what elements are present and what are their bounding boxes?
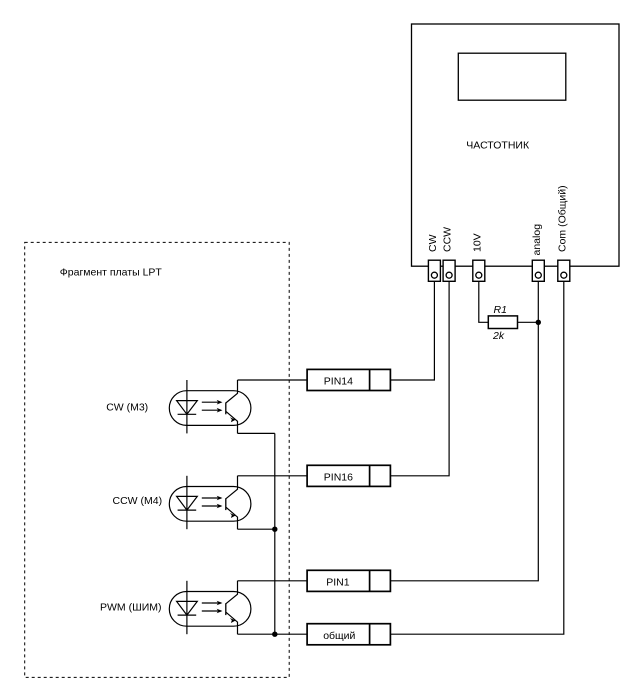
optocoupler PWM (ШИМ) <box>169 581 251 634</box>
terminal label CW <box>427 234 439 252</box>
svg-text:Com (Общий): Com (Общий) <box>556 185 568 252</box>
svg-text:PIN16: PIN16 <box>324 471 353 483</box>
svg-text:PIN14: PIN14 <box>324 376 353 388</box>
label 2k <box>492 330 505 342</box>
connector box PIN14 <box>307 369 390 390</box>
wire PWM emitter to common box <box>238 633 308 635</box>
svg-text:общий: общий <box>323 630 355 642</box>
terminal CCW <box>443 260 455 281</box>
connector box PIN16 <box>307 465 390 486</box>
label Фрагмент платы LPT <box>60 267 163 279</box>
terminal label analog <box>531 224 543 256</box>
wire analog terminal to PIN1 <box>390 281 538 581</box>
LPT board fragment dashed outline <box>25 242 290 677</box>
junction node resistor/analog <box>536 320 541 325</box>
svg-text:CCW: CCW <box>442 227 454 252</box>
wire CW terminal to PIN14 <box>390 281 434 380</box>
connector box общий <box>307 624 390 645</box>
wire CCW collector to PIN16 <box>238 475 308 477</box>
svg-text:10V: 10V <box>471 233 483 252</box>
label CW (M3) <box>106 402 148 414</box>
wire CW collector to PIN14 <box>238 379 308 381</box>
wire Com terminal to common box <box>390 281 563 634</box>
svg-text:PIN1: PIN1 <box>326 577 350 589</box>
junction node CCW emitter / rail <box>272 527 277 532</box>
resistor R1 <box>488 316 517 329</box>
label CCW (M4) <box>113 495 163 507</box>
label ЧАСТОТНИК <box>466 139 530 151</box>
wire CW emitter to common rail <box>238 432 275 434</box>
wire CCW emitter to common rail <box>238 528 275 530</box>
display window of frequency drive <box>458 53 566 100</box>
terminal CW <box>428 260 440 281</box>
connector box PIN1 <box>307 570 390 591</box>
wire CCW terminal to PIN16 <box>390 281 449 476</box>
wire resistor R1 to analog net <box>518 321 539 323</box>
optocoupler CW (M3) <box>169 380 251 433</box>
terminal label CCW <box>442 227 454 252</box>
svg-text:CCW (M4): CCW (M4) <box>113 495 163 507</box>
terminal 10V <box>473 260 485 281</box>
common emitter rail <box>274 433 276 634</box>
label R1 <box>494 304 507 316</box>
svg-text:2k: 2k <box>492 330 505 342</box>
svg-text:ЧАСТОТНИК: ЧАСТОТНИК <box>466 139 530 151</box>
svg-text:PWM (ШИМ): PWM (ШИМ) <box>100 601 162 613</box>
svg-text:Фрагмент платы LPT: Фрагмент платы LPT <box>60 267 163 279</box>
svg-text:CW: CW <box>427 234 439 252</box>
frequency drive enclosure (ЧАСТОТНИК box) <box>412 24 620 266</box>
svg-text:R1: R1 <box>494 304 507 316</box>
terminal label 10V <box>471 233 483 252</box>
svg-text:CW (M3): CW (M3) <box>106 402 148 414</box>
junction node PWM emitter / rail <box>272 632 277 637</box>
wire 10V terminal to resistor R1 <box>479 281 489 322</box>
label PWM (ШИМ) <box>100 601 162 613</box>
svg-text:analog: analog <box>531 224 543 256</box>
terminal analog <box>532 260 544 281</box>
wire PWM collector to PIN1 <box>238 580 308 582</box>
terminal label Com (Общий) <box>556 185 568 252</box>
optocoupler CCW (M4) <box>169 476 251 529</box>
terminal Com (Общий) <box>558 260 570 281</box>
